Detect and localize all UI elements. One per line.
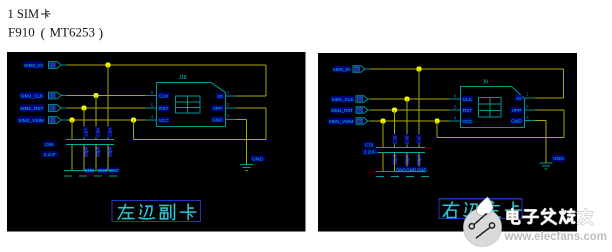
wire VPP right vertical (J9) <box>563 110 565 138</box>
svg-text:C42: C42 <box>416 135 421 144</box>
svg-text:3: 3 <box>526 115 529 121</box>
wire SIM1_CLK horizontal <box>370 98 449 100</box>
wire column C42 drop <box>418 69 420 147</box>
capacitor C67 value 33pF (rotated) <box>83 146 88 157</box>
wire column C68 drop <box>95 96 97 140</box>
GND label at J18 ground <box>251 155 264 162</box>
capacitor C39 value 33pF (rotated) <box>392 154 397 165</box>
svg-text:IO: IO <box>217 94 222 100</box>
wire SIM1_CLK stub <box>368 98 370 100</box>
pin 5 stub (J9) <box>449 109 460 111</box>
SIM contact grid (J9) <box>479 98 501 117</box>
port pin 54 (SIM2_VSIM) <box>49 117 62 124</box>
GND net label 3 <box>109 167 120 173</box>
svg-text:www.elecfans.com: www.elecfans.com <box>504 231 607 243</box>
wire SIM2_RST horizontal <box>67 107 146 109</box>
capacitor C69 refdes (rotated) <box>107 127 112 138</box>
junction on SIM2_VSIM (C66 column) <box>70 118 75 123</box>
wire GND pin to ground (J9) <box>535 120 546 122</box>
wire ground vertical <box>246 120 248 165</box>
svg-text:52: 52 <box>50 93 55 98</box>
capacitor C40 refdes (rotated) <box>404 134 409 145</box>
wire SIM1_VSIM horizontal <box>370 120 449 122</box>
junction on SIM2_VSIM (VPP branch) <box>131 118 136 123</box>
net label SIM2_VSIM <box>18 117 45 125</box>
ground dash 3 <box>94 175 102 177</box>
svg-text:VPP: VPP <box>213 106 223 112</box>
svg-text:6: 6 <box>151 90 154 96</box>
caption glyph 右 <box>443 202 459 218</box>
pin name GND <box>211 117 223 124</box>
svg-text:J9: J9 <box>483 80 489 86</box>
capacitor bank bottom plate <box>66 144 114 146</box>
ground dash 7 <box>406 176 414 178</box>
svg-text:4: 4 <box>151 114 154 120</box>
wire to pin 1 <box>236 95 266 97</box>
wire C40 lower <box>406 152 408 171</box>
wire C69 lower <box>107 144 109 170</box>
svg-text:CLK: CLK <box>463 97 473 103</box>
svg-text:SIM2_CLK: SIM2_CLK <box>20 94 44 100</box>
watermark glyph 烧 (grey halo) <box>560 209 574 222</box>
wire C39 lower <box>394 152 396 171</box>
pin 2 stub (J9) <box>525 109 535 111</box>
capacitor bank bottom plate (right) <box>376 152 425 154</box>
wire SIM2_VSIM horizontal <box>67 119 146 121</box>
wire SIM2_CLK horizontal <box>67 95 146 97</box>
wire SIM1_IO horizontal <box>370 68 563 70</box>
watermark glyph 电 <box>508 209 520 223</box>
GND label at J9 ground <box>552 155 566 162</box>
ground rail (right) <box>375 171 425 173</box>
pin name CLK (J9) <box>462 96 473 103</box>
wire column C66 drop <box>71 120 73 139</box>
net label SIM2_CLK <box>20 92 44 100</box>
pin 3 stub (J9) <box>525 120 535 122</box>
pin 1 stub <box>226 95 236 97</box>
port pin 51 (SIM2_IO) <box>49 62 62 69</box>
watermark glyph 烧 <box>560 209 574 222</box>
caption glyph 边 <box>139 205 155 219</box>
svg-text:F910: F910 <box>8 25 35 40</box>
svg-text:54: 54 <box>358 119 363 124</box>
pin name CLK <box>159 93 170 100</box>
svg-text:(: ( <box>41 27 46 42</box>
net label SIM2_RST <box>20 105 44 113</box>
wire C66 lower <box>71 144 73 170</box>
svg-text:51: 51 <box>355 67 360 72</box>
ground dash 1 <box>64 175 72 177</box>
svg-text:MT6253: MT6253 <box>50 25 96 40</box>
wire SIM1_IO stub <box>365 68 370 70</box>
GND net label 4 <box>396 167 407 173</box>
svg-text:C70: C70 <box>365 143 374 148</box>
wire GND pin to ground <box>236 119 246 121</box>
wire column C70 drop <box>382 121 384 147</box>
caption glyph 卡 <box>505 202 521 218</box>
svg-text:IO: IO <box>516 96 521 102</box>
ground dash 4 <box>109 175 117 177</box>
svg-text:VCC: VCC <box>462 119 473 125</box>
caption box 左边副卡 <box>112 201 201 222</box>
capacitor bank plates (C70 C39 C40 C42) top plate <box>376 147 425 149</box>
wire SIM2_IO right vertical <box>265 65 267 96</box>
svg-text:GND: GND <box>252 156 263 162</box>
svg-text:C40: C40 <box>404 135 409 144</box>
junction on SIM1_RST <box>392 108 397 113</box>
svg-text:51: 51 <box>50 63 55 68</box>
svg-text:C39: C39 <box>392 135 397 144</box>
svg-text:2.2uF: 2.2uF <box>364 149 376 154</box>
capacitor C66 value 2.2uF <box>42 151 59 158</box>
svg-text:5: 5 <box>151 102 154 108</box>
svg-text:C68: C68 <box>95 128 100 137</box>
svg-text:2.2uF: 2.2uF <box>44 152 56 158</box>
ground dash 6 <box>391 176 399 178</box>
svg-text:3: 3 <box>227 114 230 120</box>
svg-text:SIM2_VSIM: SIM2_VSIM <box>18 118 44 124</box>
GND net label 2 <box>98 167 109 173</box>
wire VPP branch vertical <box>133 120 135 140</box>
svg-text:4: 4 <box>454 115 457 121</box>
wire to pin 1 (J9) <box>535 97 563 99</box>
wire VPP branch vertical (J9) <box>436 121 438 138</box>
ground rail <box>64 170 115 172</box>
watermark logo circle <box>464 209 502 247</box>
svg-text:1 SIM: 1 SIM <box>8 7 40 21</box>
SIM contact grid <box>175 96 200 113</box>
svg-text:54: 54 <box>50 118 55 123</box>
wire to pin 2 <box>236 107 266 109</box>
svg-text:C69: C69 <box>107 128 112 137</box>
wire SIM2_CLK stub <box>61 95 67 97</box>
PANEL 2 (right schematic) <box>318 53 577 232</box>
svg-text:GND: GND <box>553 156 564 162</box>
wire SIM1_VSIM stub <box>368 120 370 122</box>
svg-text:SIM1_IO: SIM1_IO <box>333 67 352 72</box>
svg-text:J18: J18 <box>179 75 187 81</box>
ground dash 2 <box>79 175 87 177</box>
svg-text:2: 2 <box>227 102 230 108</box>
net label SIM1_IO <box>333 66 352 73</box>
pin name VCC <box>159 117 170 124</box>
pin 3 stub <box>226 119 236 121</box>
svg-text:CLK: CLK <box>159 94 169 100</box>
wire SIM1_IO right vertical <box>562 69 564 98</box>
capacitor C68 value 33pF (rotated) <box>95 146 100 157</box>
svg-text:SIM1_RST: SIM1_RST <box>331 108 354 113</box>
junction on SIM1_IO <box>417 67 422 72</box>
port pin 53 (SIM1_RST) <box>356 107 368 114</box>
pin name RST (J9) <box>462 107 473 114</box>
caption glyph 边 <box>464 203 480 217</box>
wire SIM1_RST stub <box>368 109 370 111</box>
pin 1 stub (J9) <box>525 97 535 99</box>
pin name RST <box>159 105 170 112</box>
capacitor bank plates (C66 C67 C68 C69) top plate <box>66 139 114 141</box>
PANEL 1 (left schematic) <box>7 52 306 232</box>
watermark glyph 友 <box>578 209 592 223</box>
svg-text:52: 52 <box>358 97 363 102</box>
wire VPP right vertical <box>265 108 267 140</box>
junction on SIM1_CLK <box>405 97 410 102</box>
watermark logo trace line 2 <box>476 228 490 239</box>
GND net label 1 <box>84 167 95 173</box>
capacitor C39 refdes (rotated) <box>392 134 397 145</box>
svg-text:GND: GND <box>212 118 223 124</box>
junction on SIM2_CLK <box>94 93 99 98</box>
wire VPP return horizontal <box>134 139 267 141</box>
wire C70 lower <box>382 152 384 171</box>
net label SIM1_CLK <box>331 96 355 103</box>
capacitor C40 value 33pF (rotated) <box>404 154 409 165</box>
svg-text:VPP: VPP <box>512 108 522 114</box>
svg-text:SIM1_CLK: SIM1_CLK <box>331 97 354 102</box>
svg-text:C67: C67 <box>83 128 88 137</box>
svg-text:53: 53 <box>358 108 363 113</box>
caption glyph 副 <box>160 204 175 220</box>
svg-text:SIM2_IO: SIM2_IO <box>24 63 43 69</box>
pin name VCC (J9) <box>462 118 473 125</box>
svg-text:6: 6 <box>454 93 457 99</box>
watermark glyph 子 (grey halo) <box>523 210 537 223</box>
capacitor C69 value 33pF (rotated) <box>107 146 112 157</box>
svg-text:1: 1 <box>227 90 230 96</box>
svg-text:RST: RST <box>463 108 473 114</box>
svg-text:): ) <box>99 27 104 42</box>
pin 5 stub <box>146 107 157 109</box>
caption box 右边主卡 <box>439 199 522 219</box>
junction on SIM1_VSIM (VPP branch) <box>435 119 440 124</box>
pin 4 stub (J9) <box>449 120 460 122</box>
wire C42 lower <box>418 152 420 171</box>
watermark glyph 子 <box>523 210 537 223</box>
net label SIM1_VSIM <box>328 118 354 125</box>
svg-text:GND: GND <box>511 119 522 125</box>
wire column C69 drop <box>107 65 109 139</box>
svg-text:VCC: VCC <box>159 118 170 124</box>
net label SIM1_RST <box>331 107 354 114</box>
junction on SIM2_IO <box>106 63 111 68</box>
port pin 53 (SIM2_RST) <box>49 105 62 112</box>
pin name IO <box>216 93 224 100</box>
pin 6 stub (J9) <box>449 98 460 100</box>
svg-text:RST: RST <box>159 106 169 112</box>
pin 4 stub <box>146 119 157 121</box>
GND net label 6 <box>417 167 428 173</box>
capacitor C42 value 33pF (rotated) <box>416 154 421 165</box>
ground dash 8 <box>421 176 429 178</box>
wire C67 lower <box>83 144 85 170</box>
port pin 54 (SIM1_VSIM) <box>356 118 368 125</box>
svg-text:5: 5 <box>454 104 457 110</box>
wire SIM2_IO stub <box>61 64 67 66</box>
wire C68 lower <box>95 144 97 170</box>
pin name VPP (J9) <box>510 107 522 114</box>
watermark logo pad 2 <box>489 223 494 228</box>
watermark glyph 电 (grey halo) <box>508 209 520 223</box>
capacitor C70 value 2.2uF <box>362 149 378 155</box>
wire VPP return horizontal (J9) <box>437 137 564 139</box>
SIM connector J18 body <box>157 83 226 127</box>
capacitor C68 refdes (rotated) <box>95 127 100 138</box>
wire column C40 drop <box>406 99 408 147</box>
svg-text:SIM2_RST: SIM2_RST <box>20 106 44 112</box>
ground dash 5 <box>376 176 384 178</box>
caption glyph 卡 <box>180 204 196 220</box>
pin 2 stub <box>226 107 236 109</box>
wire SIM2_RST stub <box>61 107 67 109</box>
watermark logo pad 1 <box>469 224 474 229</box>
watermark logo flame <box>476 197 492 216</box>
port pin 52 (SIM2_CLK) <box>49 92 62 99</box>
pin name VPP <box>211 105 223 112</box>
ground symbol (J18) <box>240 164 253 170</box>
capacitor C70 refdes <box>364 142 375 148</box>
pin 6 stub <box>146 95 157 97</box>
caption glyph 主 <box>485 201 501 217</box>
junction on SIM1_VSIM (C70 column) <box>381 119 386 124</box>
wire to pin 2 (J9) <box>535 109 564 111</box>
pin name IO (J9) <box>515 95 523 102</box>
watermark glyph 发 <box>542 209 556 224</box>
wire column C67 drop <box>83 108 85 139</box>
ground symbol (J9) <box>540 163 553 169</box>
port pin 51 (SIM1_IO) <box>353 66 365 73</box>
svg-text:SIM1_VSIM: SIM1_VSIM <box>329 119 354 124</box>
capacitor C66 refdes <box>43 141 56 148</box>
svg-text:1: 1 <box>526 92 529 98</box>
net label SIM2_IO <box>24 62 44 70</box>
junction on SIM2_RST <box>82 106 87 111</box>
svg-text:C66: C66 <box>45 142 54 148</box>
wire ground vertical (J9) <box>545 121 547 163</box>
svg-text:2: 2 <box>526 104 529 110</box>
capacitor C67 refdes (rotated) <box>83 127 88 138</box>
watermark glyph 发 (grey halo) <box>542 209 556 224</box>
pin name GND (J9) <box>510 118 522 125</box>
svg-text:53: 53 <box>50 106 55 111</box>
wire SIM1_RST horizontal <box>370 109 449 111</box>
SIM connector J9 body <box>461 87 525 128</box>
wire column C39 drop <box>394 110 396 147</box>
watermark logo trace line 1 <box>474 213 487 224</box>
wire SIM2_VSIM stub <box>61 119 67 121</box>
caption glyph 左 <box>118 204 134 219</box>
title glyph 卡 <box>41 9 50 18</box>
watermark glyph 友 (grey halo) <box>578 209 592 223</box>
capacitor C42 refdes (rotated) <box>416 134 421 145</box>
wire SIM2_IO horizontal <box>67 64 266 66</box>
GND net label 5 <box>406 167 417 173</box>
port pin 52 (SIM1_CLK) <box>356 96 368 103</box>
